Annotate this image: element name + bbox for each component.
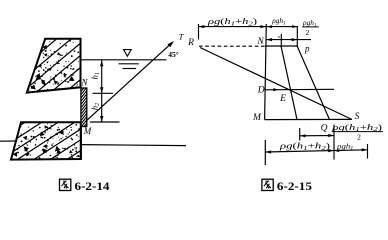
ground line right (downstream floor) bbox=[81, 145, 186, 146]
svg-text:S: S bbox=[355, 112, 360, 122]
ground line left of wall bbox=[0, 140, 17, 142]
caption fig 6-2-14 (CJK tu glyph) bbox=[60, 179, 71, 190]
arrow right on D line bbox=[273, 88, 279, 91]
line N'-M' (inner steep line through E) bbox=[281, 46, 297, 120]
bottom dimension line bbox=[265, 150, 367, 152]
svg-text:N: N bbox=[80, 78, 88, 88]
arrow down at N level bbox=[100, 87, 103, 93]
water surface line bbox=[81, 59, 167, 61]
arrow left at N tick (rho-g-h1 dim) bbox=[267, 25, 272, 28]
small dimension line bbox=[300, 135, 334, 137]
bottom dimension left tick bbox=[264, 140, 266, 165]
arrow right-at-mid bottom dim bbox=[328, 149, 334, 152]
mid tick (half of rho-g-h1) bbox=[280, 34, 282, 47]
water surface symbol (nabla) bbox=[124, 50, 132, 57]
svg-text:D: D bbox=[257, 86, 265, 96]
arrow left tip at N (row2) bbox=[266, 38, 272, 41]
arrow left-at-mid bottom dim bbox=[334, 149, 339, 152]
line R-S bbox=[200, 48, 352, 120]
svg-text:2: 2 bbox=[306, 28, 310, 37]
svg-text:R: R bbox=[187, 38, 194, 48]
svg-text:p: p bbox=[304, 43, 310, 53]
horizontal line at D bbox=[265, 88, 334, 91]
svg-text:E: E bbox=[279, 94, 286, 104]
arrow right small dim bbox=[328, 134, 334, 137]
arrow left at R tick bbox=[199, 25, 205, 28]
small dot row2 bbox=[278, 36, 279, 37]
arrow right at N tick bbox=[260, 25, 266, 28]
dimension line h1+h2 column bbox=[101, 60, 103, 122]
tick at R (dimension) bbox=[198, 24, 200, 40]
caption fig 6-2-15 (CJK tu glyph) bbox=[262, 179, 273, 190]
retaining wall upper block (hatched masonry) bbox=[0, 0, 166, 179]
fraction rho-g-h1/2 bar bbox=[302, 26, 319, 28]
bottom dimension right tick bbox=[367, 144, 369, 159]
wall edge below gate bbox=[80, 127, 82, 160]
p tick bbox=[296, 27, 298, 47]
svg-text:M: M bbox=[252, 113, 262, 123]
svg-text:6-2-15: 6-2-15 bbox=[277, 179, 312, 193]
svg-text:Q: Q bbox=[321, 124, 328, 134]
water surface dash 2 bbox=[123, 68, 137, 70]
dashed line R to N bbox=[199, 45, 265, 47]
arrow left bottom dim bbox=[266, 150, 272, 153]
fraction rho-g(h1+h2)/2 bar bbox=[332, 131, 383, 133]
top dimension line rho-g(h1+h2) and rho-g-h1 bbox=[199, 26, 299, 28]
svg-text:2: 2 bbox=[357, 133, 361, 142]
45-degree line M to T (arrow) bbox=[85, 41, 174, 122]
svg-text:6-2-14: 6-2-14 bbox=[75, 179, 110, 193]
tick under p (small dim) bbox=[299, 128, 301, 141]
arrow right bottom dim bbox=[362, 148, 368, 151]
svg-text:M: M bbox=[83, 126, 92, 136]
water surface dash 1 bbox=[119, 63, 139, 65]
svg-text:45°: 45° bbox=[168, 50, 179, 59]
pressure axis N-M vertical bbox=[265, 24, 267, 120]
second dimension row line bbox=[266, 39, 311, 41]
arrow up at water line bbox=[100, 60, 103, 66]
tick at M level bbox=[90, 121, 120, 123]
gate NM (hatched bar) bbox=[41, 86, 130, 129]
arrow down at M level bbox=[100, 116, 103, 122]
base line M-S bbox=[265, 118, 352, 120]
tick at Q column bbox=[333, 125, 335, 160]
top edge N to p bbox=[265, 45, 297, 47]
svg-text:N: N bbox=[256, 37, 264, 47]
arrow left small dim bbox=[300, 134, 306, 137]
retaining wall lower block (hatched masonry) bbox=[0, 30, 156, 240]
line p-Q bbox=[297, 47, 329, 120]
tick at N level bbox=[93, 92, 114, 94]
arrow right tip at p (row2) bbox=[292, 38, 298, 41]
arrow right at p tick (rho-g-h1 dim) bbox=[292, 25, 297, 28]
